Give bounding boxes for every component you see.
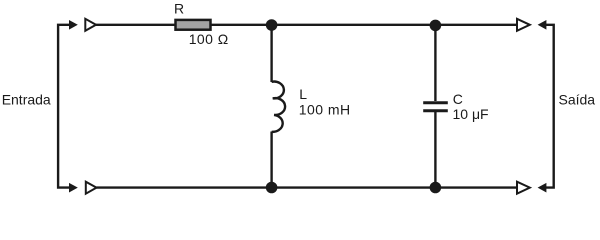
svg-text:Saída: Saída: [559, 91, 596, 107]
wire inductor branch upper: [270, 25, 272, 82]
wire capacitor branch upper: [434, 25, 436, 101]
buffer triangle output bottom: [517, 182, 530, 194]
wire left input rail with stubs: [58, 25, 70, 188]
svg-text:R: R: [174, 1, 184, 17]
buffer triangle input top: [85, 19, 96, 31]
svg-text:100 mH: 100 mH: [299, 102, 351, 118]
node D junction dot: [430, 182, 442, 194]
wire right output rail with stubs: [545, 25, 554, 188]
svg-text:Entrada: Entrada: [2, 91, 51, 107]
wire bottom rail segment (left triangle to node C): [97, 186, 272, 188]
capacitor C plates: [423, 103, 448, 111]
inductor L: [272, 82, 285, 132]
wire inductor branch lower: [270, 132, 272, 188]
node B junction dot: [430, 20, 442, 32]
wire bottom rail segment (node D to right triangle): [435, 186, 516, 188]
svg-text:C: C: [453, 91, 463, 107]
terminal arrow output bottom: [538, 183, 547, 193]
wire top rail segment (node B to right triangle): [435, 24, 516, 26]
wire top rail segment (node A to node B): [272, 24, 436, 26]
terminal arrow input bottom: [69, 183, 78, 193]
resistor R: [176, 20, 211, 30]
node C junction dot: [266, 182, 278, 194]
wire bottom rail segment (node C to node D): [272, 186, 436, 188]
svg-text:L: L: [299, 86, 307, 102]
buffer triangle input bottom: [86, 182, 97, 194]
svg-text:100 Ω: 100 Ω: [189, 31, 229, 47]
svg-text:10 μF: 10 μF: [453, 106, 489, 122]
terminal arrow input top: [69, 20, 78, 30]
terminal arrow output top: [538, 20, 547, 30]
wire top rail segment (left triangle to resistor): [96, 24, 175, 26]
node A junction dot: [266, 19, 278, 31]
wire top rail segment (resistor to node A): [212, 24, 272, 26]
wire capacitor branch lower: [434, 112, 436, 188]
buffer triangle output top: [517, 19, 530, 31]
